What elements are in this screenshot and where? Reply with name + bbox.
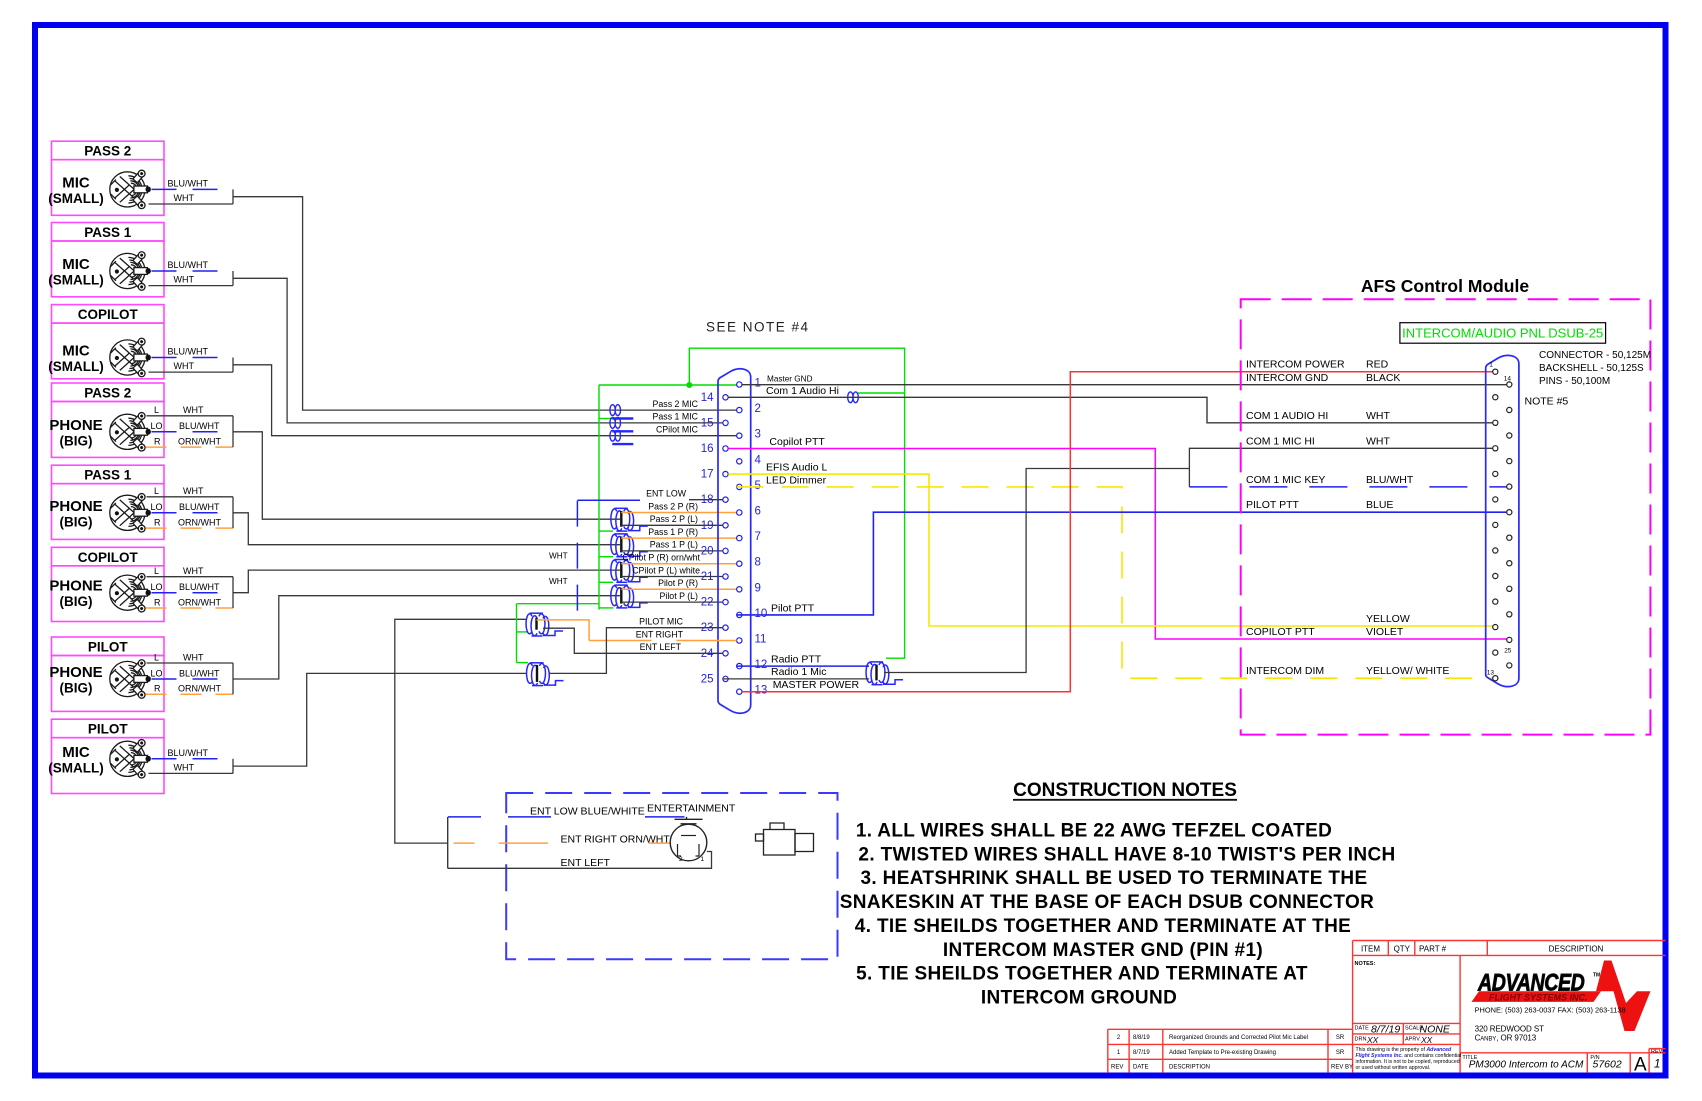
svg-text:ENT LOW: ENT LOW — [646, 489, 687, 499]
shield rings Pass 2 MIC line — [610, 405, 633, 419]
wire ent low blue — [448, 816, 685, 818]
svg-text:XX: XX — [1366, 1035, 1379, 1045]
wire to pin 8 orange — [621, 563, 736, 565]
pin P1-9 — [737, 587, 742, 592]
svg-text:ORN/WHT: ORN/WHT — [178, 517, 221, 527]
svg-text:Com 1 Audio Hi: Com 1 Audio Hi — [766, 385, 839, 397]
wire entertainment bundle riser — [395, 619, 527, 843]
svg-text:L: L — [154, 566, 159, 576]
svg-text:YELLOW: YELLOW — [1366, 613, 1410, 625]
item qty header text — [1361, 944, 1604, 953]
wire ent left black — [448, 852, 712, 869]
svg-text:PILOT PTT: PILOT PTT — [1246, 499, 1299, 511]
wire to pin 21 black — [621, 576, 723, 578]
shield junction node on master gnd — [686, 382, 692, 388]
svg-text:2: 2 — [679, 856, 683, 863]
svg-text:WHT: WHT — [174, 762, 195, 772]
svg-text:PASS 1: PASS 1 — [84, 468, 132, 483]
svg-text:REV: REV — [1111, 1064, 1123, 1070]
svg-text:R: R — [154, 436, 161, 446]
svg-text:(SMALL): (SMALL) — [48, 191, 103, 206]
pin P1-22 — [723, 599, 728, 604]
svg-text:PM3000 Intercom to ACM: PM3000 Intercom to ACM — [1469, 1059, 1584, 1070]
svg-text:PHONE: (503) 263-0037 FAX: (5: PHONE: (503) 263-0037 FAX: (503) 263-113… — [1475, 1006, 1626, 1015]
svg-text:PART #: PART # — [1419, 944, 1447, 953]
pin P1-1 — [737, 382, 742, 387]
wire bracket J5 — [232, 497, 234, 528]
shield rings Pass 1 MIC line — [610, 418, 633, 432]
svg-text:YELLOW/ WHITE: YELLOW/ WHITE — [1366, 665, 1449, 677]
shield bus green — [517, 348, 905, 662]
connector J6 COPILOT PHONE box — [49, 547, 164, 621]
svg-text:MIC: MIC — [62, 343, 90, 360]
svg-text:(SMALL): (SMALL) — [48, 760, 103, 775]
wire J7 L WHT — [147, 652, 234, 663]
svg-text:2: 2 — [755, 403, 761, 415]
wire Pilot MIC pair to twist — [233, 673, 526, 766]
svg-text:Radio 1 Mic: Radio 1 Mic — [771, 666, 826, 678]
svg-text:Pass 2 P (L): Pass 2 P (L) — [650, 514, 698, 524]
svg-text:NONE: NONE — [1420, 1023, 1451, 1035]
svg-text:DATE: DATE — [1133, 1064, 1149, 1070]
svg-text:PILOT MIC: PILOT MIC — [639, 617, 683, 627]
pin P1-5 — [737, 484, 742, 489]
svg-text:WHT: WHT — [1366, 435, 1390, 447]
svg-text:(BIG): (BIG) — [60, 681, 93, 696]
svg-text:INTERCOM/AUDIO PNL DSUB-25: INTERCOM/AUDIO PNL DSUB-25 — [1402, 326, 1603, 341]
svg-text:CPilot MIC: CPilot MIC — [656, 425, 699, 435]
wire com 1 audio hi — [728, 397, 1492, 423]
svg-text:25: 25 — [701, 673, 714, 685]
svg-text:BACKSHELL - 50,125S: BACKSHELL - 50,125S — [1539, 363, 1644, 374]
svg-text:INTERCOM GROUND: INTERCOM GROUND — [981, 988, 1177, 1009]
svg-text:COPILOT PTT: COPILOT PTT — [1246, 626, 1315, 638]
pin P1-21 — [723, 574, 728, 579]
svg-text:12: 12 — [755, 659, 768, 671]
svg-text:TM: TM — [1593, 973, 1600, 979]
wire J3 WHT — [149, 361, 234, 372]
svg-text:R: R — [154, 684, 161, 694]
wire J1 BLU/WHT — [152, 178, 234, 189]
svg-text:COM 1 AUDIO HI: COM 1 AUDIO HI — [1246, 410, 1328, 422]
svg-text:EFIS Audio L: EFIS Audio L — [766, 462, 827, 474]
svg-text:ENT LOW BLUE/WHITE: ENT LOW BLUE/WHITE — [530, 805, 645, 817]
svg-text:APRV.: APRV. — [1405, 1037, 1421, 1043]
svg-text:VIOLET: VIOLET — [1366, 626, 1404, 638]
svg-text:L: L — [154, 652, 159, 662]
svg-text:Master GND: Master GND — [767, 374, 813, 383]
connector J8 PILOT MIC box — [48, 719, 164, 793]
pin P2 row 15 — [1493, 548, 1498, 553]
wire J8 WHT — [149, 762, 234, 773]
AFS module dashed border — [1241, 299, 1651, 734]
svg-text:Pilot P (L): Pilot P (L) — [660, 591, 699, 601]
svg-text:REV BY: REV BY — [1331, 1064, 1353, 1070]
pin P1-16 — [723, 446, 728, 451]
pin P2 row 6 — [1507, 433, 1512, 438]
pin P1-10 — [737, 612, 742, 617]
wire bracket J4 — [232, 416, 234, 447]
pin P1-23 — [723, 625, 728, 630]
twisted pair bracket J3 — [232, 358, 234, 373]
wire bracket J6 — [232, 577, 234, 608]
svg-text:PHONE: PHONE — [49, 417, 102, 434]
wire ent right orange — [537, 620, 590, 641]
svg-text:WHT: WHT — [183, 405, 204, 415]
svg-text:25: 25 — [1504, 648, 1512, 655]
svg-text:ENT LEFT: ENT LEFT — [640, 642, 682, 652]
svg-text:16: 16 — [701, 443, 714, 455]
wire J5 L WHT — [147, 486, 234, 497]
svg-text:CPilot P (L) white: CPilot P (L) white — [632, 565, 700, 575]
svg-text:CONNECTOR - 50,125M: CONNECTOR - 50,125M — [1539, 350, 1651, 361]
twisted pair ENT — [526, 613, 563, 636]
svg-text:R: R — [154, 517, 161, 527]
svg-text:3. HEATSHRINK SHALL BE USED TO: 3. HEATSHRINK SHALL BE USED TO TERMINATE… — [861, 868, 1368, 889]
svg-text:BLU/WHT: BLU/WHT — [179, 421, 220, 431]
pin number labels P2 — [1487, 362, 1512, 677]
svg-text:BLU/WHT: BLU/WHT — [168, 260, 209, 270]
svg-text:Radio PTT: Radio PTT — [771, 654, 822, 666]
svg-text:DESCRIPTION: DESCRIPTION — [1169, 1064, 1210, 1070]
wire radio 1 mic black — [723, 678, 869, 680]
pin P1-2 — [737, 407, 742, 412]
svg-text:CPilot P (R) orn/wht: CPilot P (R) orn/wht — [622, 553, 700, 563]
svg-text:FLIGHT SYSTEMS INC.: FLIGHT SYSTEMS INC. — [1489, 992, 1588, 1002]
svg-text:3: 3 — [755, 429, 761, 441]
svg-text:57602: 57602 — [1593, 1059, 1622, 1071]
svg-text:COPILOT: COPILOT — [78, 550, 139, 565]
wire master power red — [742, 372, 1492, 692]
wire J6 LO BLU/WHT — [151, 582, 234, 593]
svg-text:4: 4 — [755, 454, 762, 466]
wire pilot mic to pin 23 — [549, 628, 723, 674]
ent bundle bracket — [447, 817, 449, 868]
pin P1-7 — [737, 535, 742, 540]
svg-text:PHONE: PHONE — [49, 578, 102, 595]
pin P1-20 — [723, 548, 728, 553]
svg-text:320 REDWOOD ST: 320 REDWOOD ST — [1475, 1025, 1544, 1034]
wire CPilot Phone pair to twist — [233, 570, 620, 593]
svg-text:13: 13 — [1487, 670, 1495, 677]
wire J6 R ORN/WHT — [146, 597, 234, 608]
pin P2 row 14 — [1507, 535, 1512, 540]
svg-text:PILOT: PILOT — [88, 722, 129, 737]
wire J2 BLU/WHT — [152, 260, 234, 271]
svg-text:Pass 1 P (L): Pass 1 P (L) — [650, 540, 698, 550]
pin P1-19 — [723, 523, 728, 528]
pin P1-8 — [737, 561, 742, 566]
svg-text:5: 5 — [755, 480, 761, 492]
pin P2 row 5 — [1493, 420, 1498, 425]
svg-text:PASS 2: PASS 2 — [84, 144, 131, 159]
wire Pass 1 MIC pair to pin 15 — [233, 278, 723, 423]
svg-text:MIC: MIC — [62, 256, 90, 273]
twisted pair Pilot MIC — [527, 663, 564, 686]
svg-text:INTERCOM POWER: INTERCOM POWER — [1246, 359, 1345, 371]
svg-text:LO: LO — [151, 421, 163, 431]
svg-text:8/8/19: 8/8/19 — [1133, 1035, 1150, 1041]
pin P2 row 4 — [1507, 407, 1512, 412]
svg-text:8/7/19: 8/7/19 — [1133, 1050, 1150, 1056]
svg-text:RED: RED — [1366, 359, 1389, 371]
svg-text:14: 14 — [701, 392, 714, 404]
svg-text:MASTER POWER: MASTER POWER — [773, 679, 860, 691]
wire J5 R ORN/WHT — [146, 517, 234, 528]
svg-text:Pilot P (R): Pilot P (R) — [658, 578, 698, 588]
pin P2 row 25 — [1493, 676, 1498, 681]
svg-text:BLU/WHT: BLU/WHT — [179, 668, 220, 678]
svg-text:R: R — [154, 597, 161, 607]
svg-text:1: 1 — [755, 378, 761, 390]
title block tables — [1108, 941, 1666, 1073]
svg-text:INTERCOM DIM: INTERCOM DIM — [1246, 665, 1324, 677]
pin P2 row 8 — [1507, 459, 1512, 464]
svg-text:Reorganized Grounds and Correc: Reorganized Grounds and Corrected Pilot … — [1169, 1035, 1308, 1041]
pin P1-3 — [737, 433, 742, 438]
svg-text:LO: LO — [151, 582, 163, 592]
wire Pass 2 Phone pair to twist — [233, 432, 620, 519]
svg-text:7: 7 — [755, 531, 761, 543]
svg-text:L: L — [154, 486, 159, 496]
svg-text:BLUE: BLUE — [1366, 499, 1393, 511]
svg-text:PASS 2: PASS 2 — [84, 386, 131, 401]
twisted pair bracket J1 — [232, 189, 234, 204]
entertainment dashed box — [506, 793, 837, 959]
svg-text:20: 20 — [701, 545, 714, 557]
pin P2 row 7 — [1493, 446, 1498, 451]
pin P2 row 23 — [1493, 650, 1498, 655]
wire Pilot Phone pair to twist — [233, 596, 620, 679]
svg-text:MIC: MIC — [62, 744, 90, 761]
svg-text:ENT RIGHT: ENT RIGHT — [636, 629, 684, 639]
pin P2 row 16 — [1507, 561, 1512, 566]
pin P2 row 12 — [1507, 510, 1512, 515]
wire J8 BLU/WHT — [152, 748, 234, 759]
svg-text:ENTERTAINMENT: ENTERTAINMENT — [647, 803, 736, 815]
wire led dimmer yellow dashed — [737, 487, 1493, 678]
svg-text:Pass 1 MIC: Pass 1 MIC — [653, 412, 699, 422]
wire to pin 9 orange — [621, 588, 736, 590]
pin P1-14 — [723, 395, 728, 400]
svg-text:COPILOT: COPILOT — [78, 307, 139, 322]
pin P2 row 17 — [1493, 573, 1498, 578]
svg-text:NOTES:: NOTES: — [1355, 961, 1376, 967]
logo red zigzag N — [1596, 961, 1651, 1032]
wire radio ptt blue — [737, 665, 869, 667]
svg-text:INTERCOM GND: INTERCOM GND — [1246, 372, 1329, 384]
svg-text:AFS Control Module: AFS Control Module — [1361, 276, 1529, 296]
revision rows text — [1111, 1035, 1353, 1070]
svg-text:Pass 2 MIC: Pass 2 MIC — [653, 399, 699, 409]
svg-text:ITEM: ITEM — [1361, 944, 1380, 953]
connector notes text — [1539, 350, 1651, 387]
svg-text:BLU/WHT: BLU/WHT — [1366, 474, 1414, 486]
svg-text:NOTE #5: NOTE #5 — [1525, 396, 1569, 408]
svg-text:WHT: WHT — [1366, 410, 1390, 422]
svg-text:ORN/WHT: ORN/WHT — [178, 684, 221, 694]
pin P1-25 — [723, 676, 728, 681]
pin P2 row 24 — [1507, 663, 1512, 668]
pin P2 row 20 — [1507, 612, 1512, 617]
svg-text:6: 6 — [755, 506, 761, 518]
svg-text:BLU/WHT: BLU/WHT — [179, 582, 220, 592]
svg-text:BLU/WHT: BLU/WHT — [168, 748, 209, 758]
pin P2 row 18 — [1507, 586, 1512, 591]
svg-text:WHT: WHT — [183, 486, 204, 496]
svg-text:10: 10 — [755, 608, 768, 620]
pin P1-24 — [723, 651, 728, 656]
connector J5 PASS 1 PHONE box — [49, 465, 164, 539]
entertainment plug symbol — [756, 823, 814, 855]
svg-text:1: 1 — [1489, 362, 1493, 369]
svg-text:Copilot PTT: Copilot PTT — [769, 436, 825, 448]
twisted pair Pass 1 Phone — [611, 534, 648, 557]
svg-text:WHT: WHT — [174, 275, 195, 285]
pin P2 row 21 — [1493, 625, 1498, 630]
wire to pin 22 black — [621, 601, 723, 603]
svg-text:1: 1 — [701, 856, 705, 863]
entertainment jack circle — [670, 817, 707, 861]
svg-text:or used without written approv: or used without written approval. — [1356, 1065, 1431, 1071]
svg-text:SR: SR — [1336, 1050, 1345, 1056]
svg-text:11: 11 — [755, 634, 767, 646]
date scale drn aprv — [1355, 1025, 1424, 1042]
svg-text:19: 19 — [701, 520, 714, 532]
wire bracket J7 — [232, 663, 234, 694]
wire to pin 20 black — [621, 550, 723, 552]
wire J4 R ORN/WHT — [146, 436, 234, 447]
wire efis audio l yellow — [728, 474, 1492, 626]
svg-text:15: 15 — [701, 417, 714, 429]
pin P1-17 — [723, 471, 728, 476]
svg-text:17: 17 — [701, 469, 714, 481]
svg-text:5. TIE SHEILDS TOGETHER AND TE: 5. TIE SHEILDS TOGETHER AND TERMINATE AT — [856, 964, 1308, 985]
wire Pass 2 MIC pair to pin 2 — [233, 197, 737, 410]
pin P2 row 1 — [1493, 369, 1498, 374]
svg-text:13: 13 — [755, 685, 768, 697]
pin P2 row 22 — [1507, 637, 1512, 642]
svg-text:Added Template to Pre-existing: Added Template to Pre-existing Drawing — [1169, 1050, 1276, 1056]
svg-text:MIC: MIC — [62, 174, 90, 191]
svg-text:DATE: DATE — [1355, 1025, 1370, 1031]
wire J7 LO BLU/WHT — [151, 668, 234, 679]
wire ent right orange dashed — [454, 842, 671, 844]
logo red band — [1472, 991, 1602, 1002]
wire master gnd black — [742, 384, 1506, 386]
pin P2 row 9 — [1493, 471, 1498, 476]
svg-text:INTERCOM MASTER GND (PIN #1): INTERCOM MASTER GND (PIN #1) — [943, 940, 1263, 961]
svg-text:1. ALL WIRES SHALL BE 22 AWG T: 1. ALL WIRES SHALL BE 22 AWG TEFZEL COAT… — [856, 821, 1332, 842]
svg-text:BLU/WHT: BLU/WHT — [168, 178, 209, 188]
property / confidential text — [1356, 1047, 1462, 1071]
pin P1-6 — [737, 510, 742, 515]
svg-text:22: 22 — [701, 597, 714, 609]
svg-text:SNAKESKIN AT THE BASE OF EACH: SNAKESKIN AT THE BASE OF EACH DSUB CONNE… — [840, 892, 1374, 913]
wire to pin 6 orange — [621, 512, 736, 514]
wire radio pair to com1 — [884, 469, 1189, 673]
svg-text:(BIG): (BIG) — [60, 433, 93, 448]
svg-text:WHT: WHT — [183, 652, 204, 662]
svg-text:PILOT: PILOT — [88, 640, 129, 655]
pin P1-18 — [723, 497, 728, 502]
pin P1-11 — [737, 638, 742, 643]
svg-text:Pilot PTT: Pilot PTT — [771, 602, 815, 614]
svg-text:PINS - 50,100M: PINS - 50,100M — [1539, 376, 1610, 387]
svg-text:BLU/WHT: BLU/WHT — [168, 347, 209, 357]
svg-text:8: 8 — [755, 557, 761, 569]
pin P2 row 10 — [1507, 484, 1512, 489]
twisted pair CPilot Phone — [611, 560, 648, 583]
svg-text:ORN/WHT: ORN/WHT — [178, 436, 221, 446]
connector P2 DSUB-25 shell (AFS) — [1486, 355, 1519, 686]
connector J3 COPILOT MIC box — [48, 305, 164, 379]
connector J1 PASS 2 MIC box — [48, 141, 164, 215]
wire CPilot MIC pair to pin 3 — [233, 365, 737, 436]
svg-text:COM 1 MIC KEY: COM 1 MIC KEY — [1246, 474, 1325, 486]
svg-text:8/7/19: 8/7/19 — [1371, 1024, 1400, 1036]
pin P2 row 11 — [1493, 497, 1498, 502]
svg-text:(BIG): (BIG) — [60, 514, 93, 529]
svg-text:WHT: WHT — [549, 552, 568, 561]
pin P1-13 — [737, 689, 742, 694]
twisted pair Radio — [866, 662, 903, 685]
svg-text:PHONE: PHONE — [49, 664, 102, 681]
pin P2 row 19 — [1493, 599, 1498, 604]
wire J2 WHT — [149, 275, 234, 286]
twisted pair Pass 2 Phone — [611, 508, 648, 531]
wire com 1 mic key blu/wht dashed — [1189, 486, 1506, 488]
wire to pin 7 orange — [621, 537, 736, 539]
wire J7 R ORN/WHT — [146, 684, 234, 695]
svg-text:WHT: WHT — [174, 193, 195, 203]
svg-text:LO: LO — [151, 502, 163, 512]
wire ent left black — [543, 628, 723, 653]
svg-text:14: 14 — [1504, 376, 1512, 383]
shield rings CPilot MIC line — [610, 430, 633, 444]
svg-text:LED Dimmer: LED Dimmer — [766, 474, 827, 486]
svg-text:BLACK: BLACK — [1366, 372, 1400, 384]
svg-text:Pass 1 P (R): Pass 1 P (R) — [648, 527, 698, 537]
shield rings Com 1 Audio line — [848, 392, 859, 403]
ADVANCED logo — [1477, 968, 1585, 996]
pin P1-15 — [723, 420, 728, 425]
pin P1-12 — [737, 663, 742, 668]
svg-text:L: L — [154, 405, 159, 415]
wire J6 L WHT — [147, 566, 234, 577]
svg-text:2. TWISTED WIRES SHALL HAVE 8-: 2. TWISTED WIRES SHALL HAVE 8-10 TWIST'S… — [858, 844, 1395, 865]
svg-text:ORN/WHT: ORN/WHT — [178, 597, 221, 607]
pin P2 row 2 — [1507, 382, 1512, 387]
twisted pair bracket J2 — [232, 271, 234, 286]
INTERCOM/AUDIO PNL DSUB-25 label box — [1400, 323, 1606, 344]
svg-text:CONSTRUCTION NOTES: CONSTRUCTION NOTES — [1013, 780, 1237, 801]
svg-text:Canby, OR 97013: Canby, OR 97013 — [1475, 1034, 1537, 1043]
pin P1-4 — [737, 459, 742, 464]
connector J2 PASS 1 MIC box — [48, 223, 164, 297]
construction notes text — [840, 821, 1396, 1009]
svg-text:SR: SR — [1336, 1035, 1345, 1041]
wire pilot ptt blue — [737, 512, 1507, 615]
wire J5 LO BLU/WHT — [151, 502, 234, 513]
svg-text:A: A — [1634, 1055, 1647, 1076]
svg-text:WHT: WHT — [183, 566, 204, 576]
connector J4 PASS 2 PHONE box — [49, 383, 164, 457]
svg-text:SEE NOTE #4: SEE NOTE #4 — [706, 320, 810, 335]
svg-text:LO: LO — [151, 668, 163, 678]
pin P2 row 13 — [1493, 522, 1498, 527]
svg-text:COM 1 MIC HI: COM 1 MIC HI — [1246, 435, 1315, 447]
